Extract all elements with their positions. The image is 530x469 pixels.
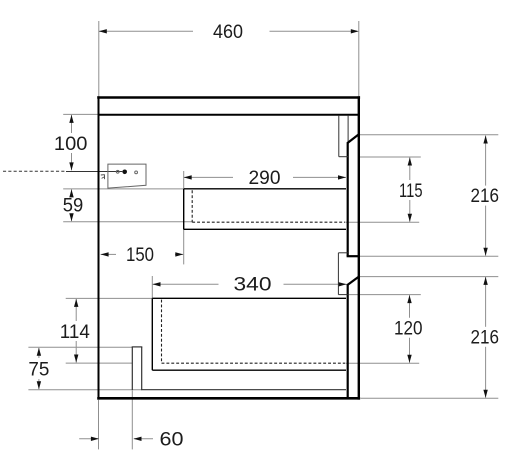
svg-text:340: 340: [234, 274, 272, 295]
dimension 216 upper (hanging rail spacing, far right): [360, 135, 499, 256]
tiny rotated "2" note at wall: [101, 175, 105, 180]
svg-text:290: 290: [249, 168, 281, 189]
dimension 216 lower (rail to bottom, far right): [360, 277, 499, 399]
dimension 340 (lower drawer depth): [152, 274, 346, 298]
back panel outer edge: [358, 96, 360, 399]
bottom panel: [97, 397, 360, 400]
dimension 59 (hinge line to drawer top, left): [63, 189, 192, 222]
svg-text:120: 120: [394, 319, 423, 340]
bottom front bar and plinth rail: [132, 347, 346, 390]
svg-text:216: 216: [471, 328, 500, 349]
svg-text:75: 75: [28, 359, 49, 380]
left side panel: [98, 96, 100, 399]
dimension 150 (front to upper drawer, left): [101, 230, 184, 267]
dimension 114 (lower drawer top to dashed bottom, left): [60, 298, 153, 363]
svg-text:114: 114: [60, 322, 90, 343]
back panel inner edge: [347, 143, 349, 398]
svg-text:150: 150: [126, 245, 154, 266]
upper drawer dashed inner bottom: [192, 190, 345, 222]
lower drawer dashed inner bottom: [162, 300, 346, 364]
middle hanging rail notch: [338, 253, 360, 295]
svg-text:100: 100: [54, 134, 88, 155]
dimension 290 (upper drawer depth): [184, 168, 346, 189]
dimension 115 (upper drawer height, right): [346, 157, 423, 222]
hinge mounting bracket: [108, 164, 146, 188]
top hanging rail notch: [339, 116, 360, 157]
upper drawer box: [184, 189, 346, 230]
dimension 100 (top panel to hinge axis, left): [54, 114, 98, 170]
svg-text:115: 115: [399, 181, 423, 202]
svg-text:59: 59: [63, 196, 84, 217]
lower drawer box: [152, 298, 346, 370]
top panel: [97, 98, 360, 115]
dimension 60 (bar offset, bottom): [79, 390, 183, 450]
dimension 75 (bottom bar height, left): [28, 347, 141, 389]
svg-text:460: 460: [213, 22, 243, 43]
dimension 460 (overall width, top): [99, 21, 359, 96]
svg-text:216: 216: [471, 186, 500, 207]
dimension 120 (lower drawer height, right): [346, 295, 423, 364]
hinge axis dashed centreline: [3, 170, 122, 172]
svg-text:60: 60: [160, 430, 184, 451]
